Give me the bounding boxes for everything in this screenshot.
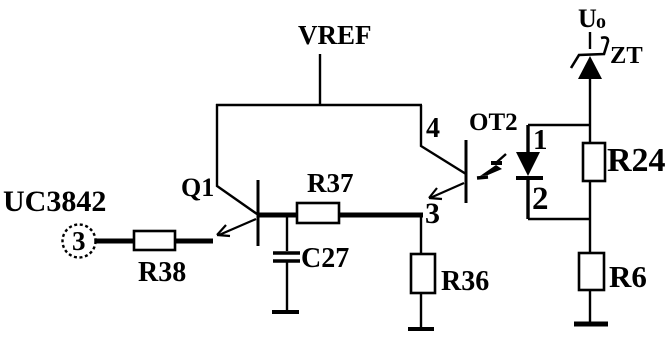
wire LED cathode lead: [526, 179, 529, 219]
zener diode ZT: [571, 37, 608, 79]
opto OT2 phototransistor bar: [465, 140, 468, 203]
svg-text:U: U: [578, 4, 597, 33]
wire R38 to Q1 emitter: [175, 239, 213, 244]
resistor R36: [411, 254, 435, 293]
light arrow (opto coupling): [477, 154, 506, 178]
resistor R24: [583, 143, 605, 181]
svg-text:R37: R37: [307, 168, 354, 198]
svg-text:o: o: [596, 11, 606, 33]
diode LED of OT2: [516, 152, 543, 178]
wire Q1 base to R37: [259, 213, 298, 218]
svg-text:C27: C27: [301, 243, 349, 274]
svg-text:ZT: ZT: [610, 42, 643, 69]
wire R6 to ground: [589, 290, 591, 323]
pin circle 3 (UC3842 pin): [63, 225, 96, 258]
opto OT2 emitter arrow to node 3: [429, 183, 464, 199]
wire C27 branch: [286, 215, 288, 251]
transistor Q1 base bar: [257, 180, 260, 246]
wire pin3 to R38: [95, 239, 135, 244]
label Uo: [578, 4, 606, 33]
transistor Q1 collector wire: [217, 104, 257, 214]
svg-text:R24: R24: [607, 142, 666, 179]
wire Uo stub: [589, 32, 591, 49]
svg-text:2: 2: [532, 181, 549, 217]
svg-text:4: 4: [426, 113, 440, 144]
wire C27 to ground: [286, 262, 288, 311]
wire R36 to ground: [420, 293, 422, 328]
svg-text:R6: R6: [609, 259, 647, 294]
wire top rail: [216, 104, 422, 106]
svg-text:OT2: OT2: [469, 109, 518, 136]
svg-text:Q1: Q1: [181, 173, 214, 202]
wire R37 to node 3: [339, 213, 423, 218]
resistor R38: [134, 231, 175, 250]
wire LED anode lead: [526, 125, 529, 153]
ground (R36): [408, 327, 434, 331]
wire LED pin2 horizontal: [528, 218, 591, 220]
wire R24 to R6: [589, 181, 591, 254]
wire LED pin1 horizontal: [528, 124, 591, 126]
ground (R6): [574, 322, 608, 327]
svg-text:R38: R38: [138, 257, 186, 288]
wire zener to R24: [589, 79, 591, 144]
svg-text:3: 3: [425, 197, 440, 230]
svg-text:R36: R36: [441, 266, 489, 297]
transistor Q1 emitter arrow: [217, 219, 256, 236]
ground (C27): [272, 310, 299, 314]
wire node 3 down to R36: [420, 215, 422, 255]
capacitor C27: [273, 253, 300, 261]
resistor R37: [297, 203, 339, 223]
wire pin4 branch to OT2 collector: [421, 105, 466, 174]
svg-text:3: 3: [72, 226, 86, 256]
svg-text:UC3842: UC3842: [3, 185, 106, 218]
svg-text:1: 1: [533, 124, 548, 156]
svg-text:VREF: VREF: [298, 20, 372, 50]
wire VREF stub: [319, 54, 321, 106]
resistor R6: [579, 253, 604, 290]
